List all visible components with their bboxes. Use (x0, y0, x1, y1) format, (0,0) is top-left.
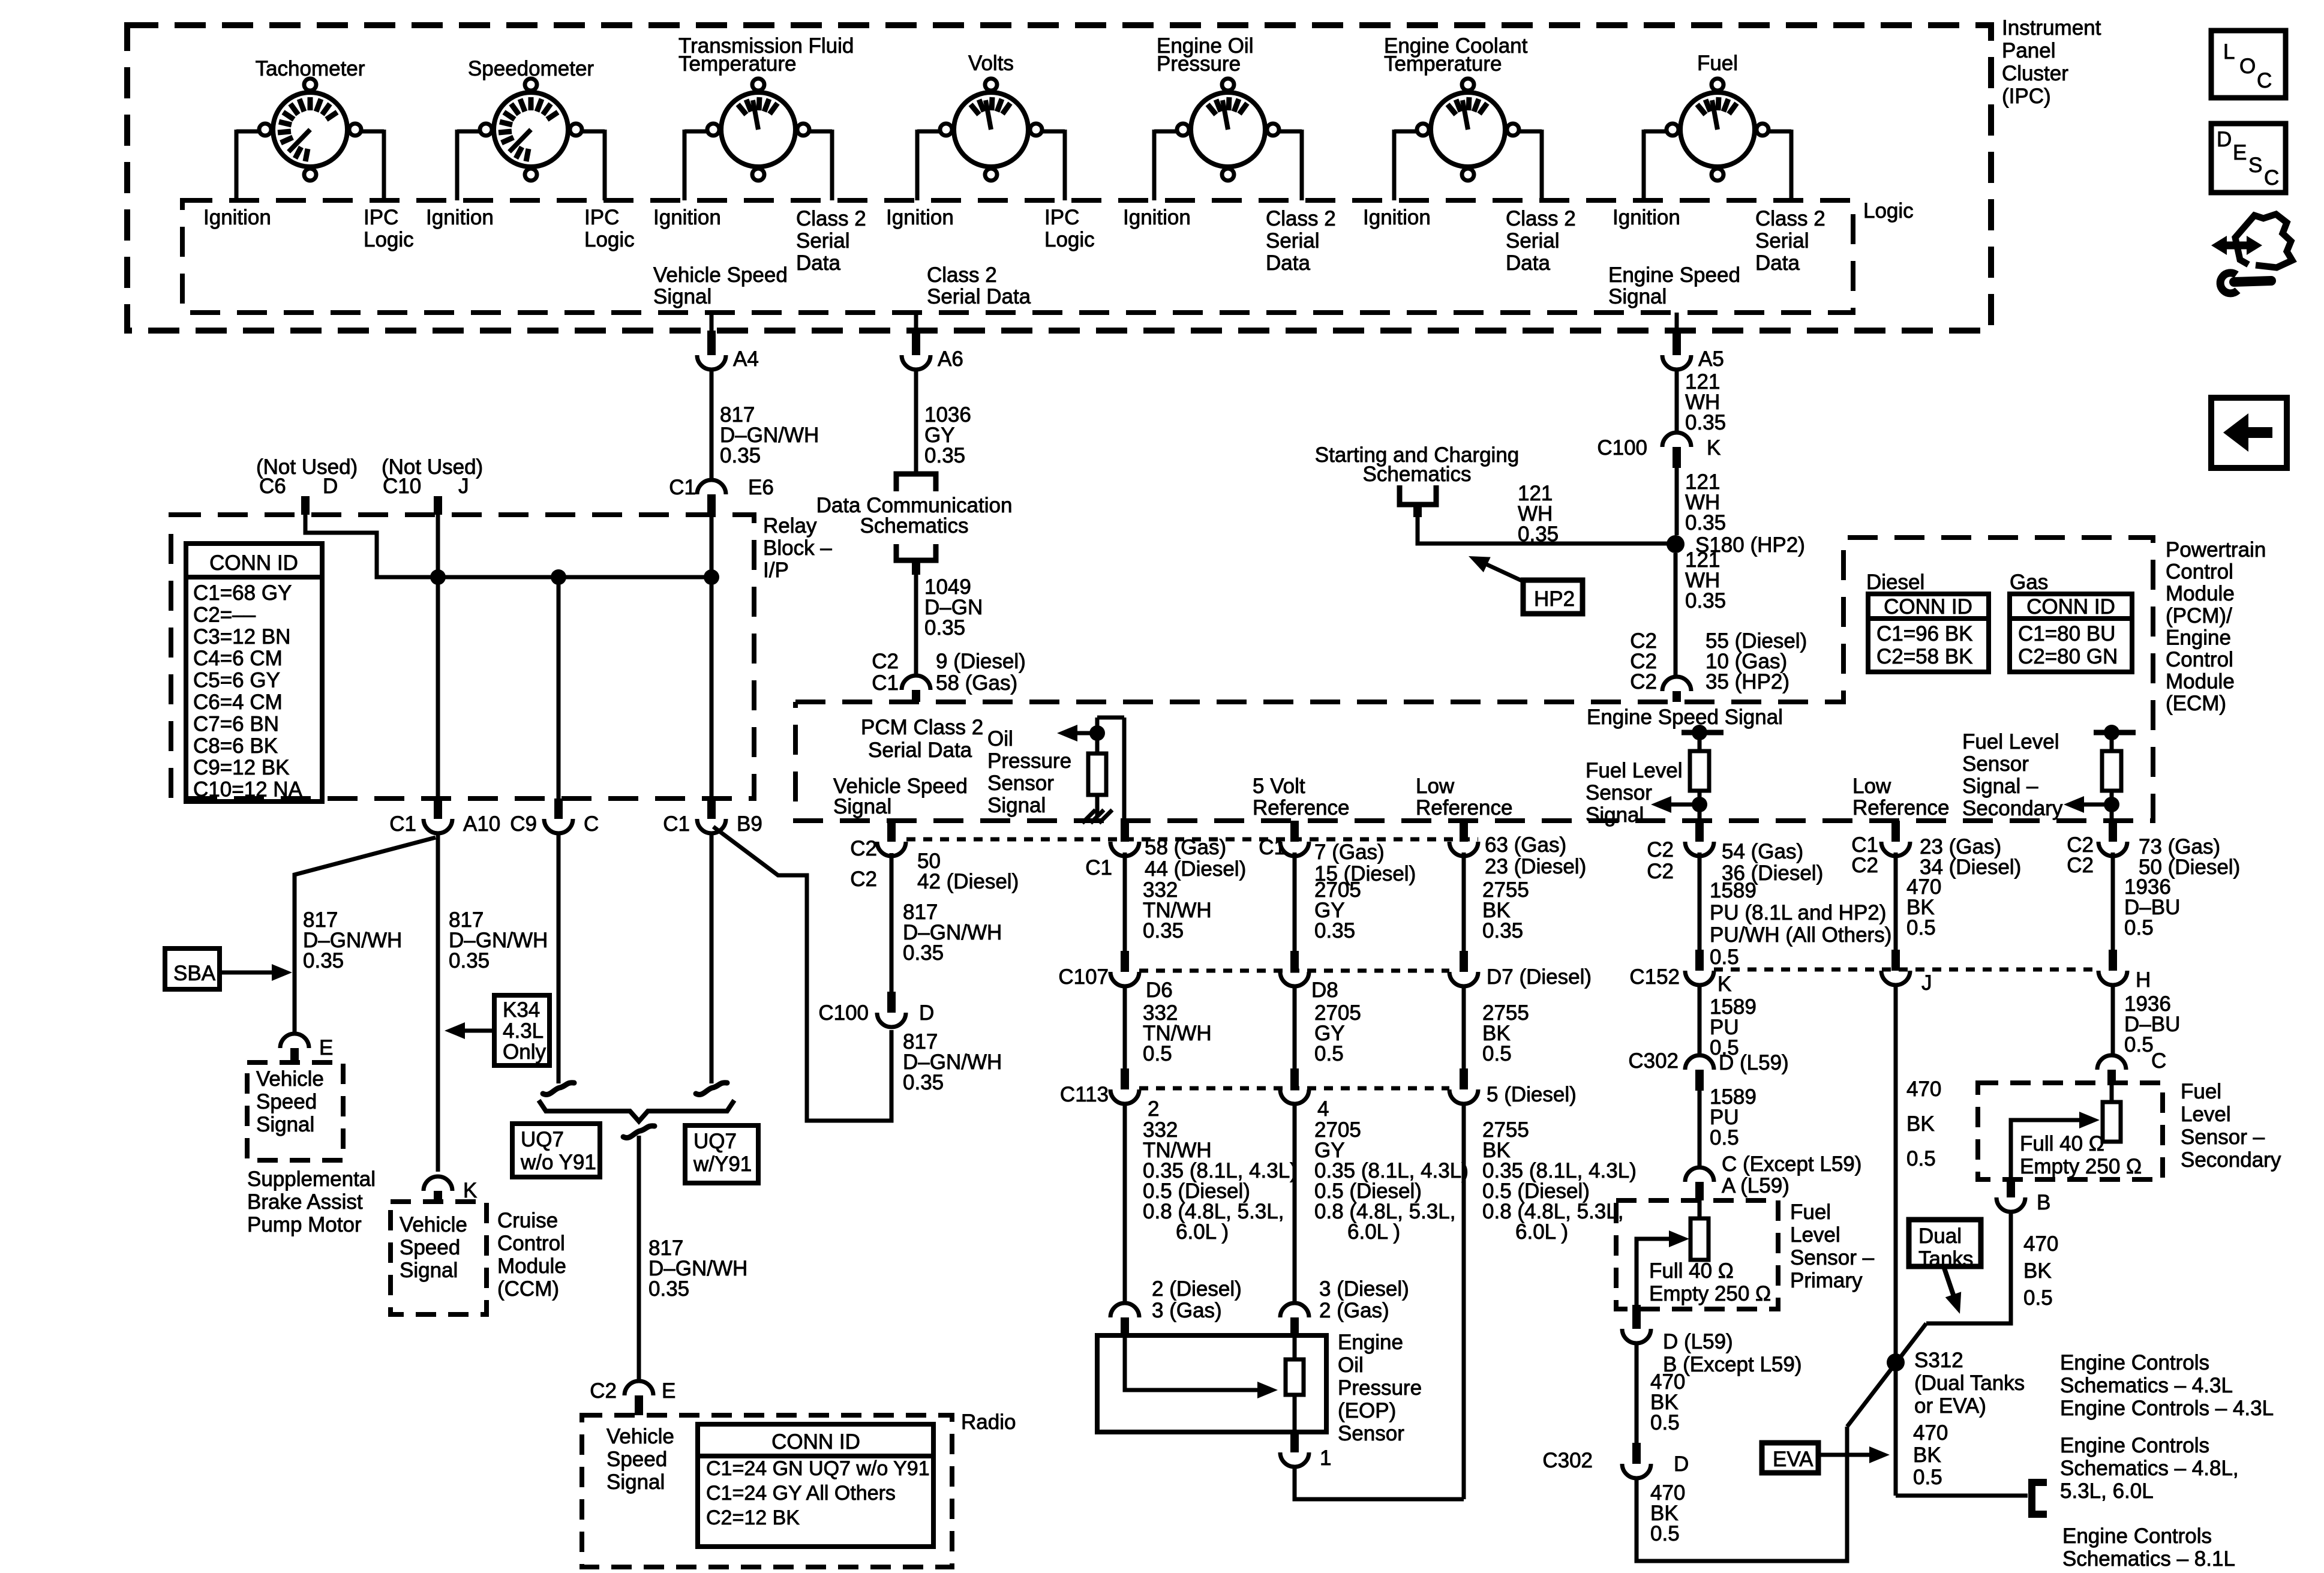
svg-text:C302: C302 (1542, 1449, 1593, 1472)
svg-text:A6: A6 (938, 347, 963, 371)
svg-text:C6=4 CM: C6=4 CM (193, 691, 283, 714)
svg-text:IPC: IPC (364, 206, 398, 229)
wire col 2440 seg1 (1462, 852, 1466, 951)
svg-text:A4: A4 (733, 347, 759, 371)
svg-text:0.5: 0.5 (1913, 1466, 1942, 1489)
svg-text:Volts: Volts (968, 52, 1014, 75)
junction dot E6 wire (704, 569, 719, 585)
junction dot fls2 bottom (2104, 797, 2119, 812)
wire C6 jog (305, 515, 711, 577)
wire col 2158 seg2 (1293, 986, 1297, 1068)
svg-text:C2=58 BK: C2=58 BK (1876, 645, 1973, 668)
table CONN ID radio (698, 1424, 933, 1547)
connector A4 (707, 331, 716, 355)
wire fls branch (1698, 733, 1702, 751)
gauge engine coolant temperature (1431, 92, 1505, 167)
svg-text:1: 1 (1320, 1446, 1331, 1470)
svg-text:(PCM)/: (PCM)/ (2166, 604, 2232, 628)
svg-text:0.35: 0.35 (903, 941, 944, 965)
svg-text:w/o Y91: w/o Y91 (520, 1151, 596, 1174)
svg-text:Secondary: Secondary (1962, 797, 2063, 820)
svg-text:Cluster: Cluster (2002, 62, 2068, 85)
svg-text:Engine Controls: Engine Controls (2060, 1434, 2209, 1457)
wire C100K to S180 (1675, 468, 1679, 535)
wire c302 down (1698, 1091, 1702, 1167)
svg-text:5.3L, 6.0L: 5.3L, 6.0L (2060, 1479, 2154, 1503)
svg-text:Empty 250 Ω: Empty 250 Ω (1649, 1282, 1771, 1305)
wire col 1875 seg1 (1123, 852, 1127, 951)
svg-text:PU (8.1L and HP2): PU (8.1L and HP2) (1710, 901, 1886, 924)
svg-text:Signal –: Signal – (1962, 775, 2038, 798)
svg-text:Brake Assist: Brake Assist (247, 1190, 363, 1214)
svg-text:Logic: Logic (1044, 228, 1095, 251)
svg-text:470: 470 (1913, 1421, 1948, 1445)
svg-text:Ignition: Ignition (426, 206, 494, 229)
svg-text:C1=24 GY All Others: C1=24 GY All Others (706, 1482, 896, 1505)
svg-text:C1=96 BK: C1=96 BK (1876, 622, 1973, 646)
svg-text:C5=6 GY: C5=6 GY (193, 669, 280, 692)
svg-text:IPC: IPC (584, 206, 619, 229)
svg-text:Data: Data (1506, 251, 1550, 275)
connector C (554, 798, 563, 819)
icon wrench-arrow (2211, 236, 2227, 255)
wire B9 drop to brace (710, 833, 714, 1083)
svg-text:Sensor: Sensor (1586, 781, 1652, 804)
svg-text:54 (Gas): 54 (Gas) (1722, 840, 1803, 863)
svg-text:0.35: 0.35 (1143, 919, 1184, 942)
connector C2 73 (2109, 821, 2117, 842)
svg-text:0.5: 0.5 (2124, 916, 2154, 939)
wire E6-B9 (710, 515, 714, 800)
gauge fuel (1680, 92, 1755, 167)
wire break B9 (696, 1083, 727, 1095)
icon LOC box (2211, 31, 2286, 98)
svg-text:Reference: Reference (1852, 796, 1949, 819)
svg-text:Full 40 Ω: Full 40 Ω (2020, 1132, 2104, 1155)
svg-text:2: 2 (1148, 1097, 1159, 1121)
wire 1036 A6 (914, 370, 918, 472)
svg-text:Secondary: Secondary (2181, 1148, 2281, 1172)
connector C2 35 (1662, 677, 1691, 691)
arrow primary (1669, 1230, 1689, 1247)
gauge volts (954, 92, 1028, 167)
wire A4 drop (710, 313, 714, 331)
wire fls2 lower (2110, 791, 2114, 821)
wire secondary arrow (2011, 1120, 2080, 1179)
box UQ7 w/o Y91 (512, 1124, 600, 1177)
wire B down (1926, 1212, 2011, 1323)
svg-text:Fuel Level: Fuel Level (1962, 730, 2059, 754)
wire A5 drop (1675, 313, 1679, 331)
svg-text:Signal: Signal (1586, 803, 1644, 827)
dotted line PCM bottom (906, 837, 1478, 842)
svg-text:Engine Speed Signal: Engine Speed Signal (1587, 706, 1783, 729)
connector C1 23 (1891, 821, 1900, 842)
svg-text:Relay: Relay (763, 514, 817, 538)
svg-text:Cruise: Cruise (497, 1209, 558, 1232)
svg-text:0.5: 0.5 (1906, 1147, 1936, 1170)
wire secondary resistor top (2110, 1083, 2114, 1102)
svg-text:Full 40 Ω: Full 40 Ω (1649, 1259, 1734, 1283)
svg-text:Engine Speed: Engine Speed (1608, 263, 1740, 287)
svg-text:BK: BK (2023, 1259, 2052, 1283)
svg-text:SBA: SBA (173, 962, 216, 985)
svg-text:35 (HP2): 35 (HP2) (1706, 670, 1789, 694)
connector K ccm (424, 1176, 452, 1191)
connector C secondary (2097, 1055, 2126, 1070)
svg-text:Schematics – 4.8L,: Schematics – 4.8L, (2060, 1457, 2239, 1480)
svg-text:Low: Low (1416, 775, 1455, 798)
svg-text:Serial: Serial (1506, 229, 1559, 253)
svg-text:PCM Class 2: PCM Class 2 (861, 716, 983, 739)
wire C10 drop (436, 515, 440, 800)
wire fls2 T-bar (2094, 730, 2136, 736)
svg-text:Data: Data (1755, 251, 1800, 275)
svg-text:Diesel: Diesel (1866, 571, 1924, 594)
svg-text:C4=6 CM: C4=6 CM (193, 647, 283, 670)
svg-text:Ignition: Ignition (1613, 206, 1680, 229)
wire eop out (1293, 1395, 1297, 1432)
svg-text:Level: Level (1790, 1223, 1840, 1247)
svg-text:D: D (323, 475, 338, 498)
svg-text:0.35: 0.35 (449, 949, 490, 972)
svg-text:0.5: 0.5 (1650, 1411, 1680, 1434)
svg-text:2 (Diesel): 2 (Diesel) (1152, 1277, 1242, 1301)
svg-text:C1: C1 (669, 476, 696, 499)
svg-text:D7 (Diesel): D7 (Diesel) (1487, 965, 1592, 989)
svg-text:C2=––: C2=–– (193, 603, 256, 626)
wire eop left internal (1125, 1335, 1261, 1390)
svg-text:H: H (2136, 968, 2151, 992)
box HP2 (1523, 580, 1583, 614)
connector C2 54 (1695, 821, 1704, 842)
svg-text:Signal: Signal (833, 795, 891, 818)
svg-text:C1: C1 (389, 812, 416, 836)
svg-text:C1: C1 (663, 812, 690, 836)
svg-text:0.35: 0.35 (1482, 919, 1523, 942)
svg-text:0.35: 0.35 (720, 444, 761, 467)
svg-text:Ignition: Ignition (203, 206, 271, 229)
svg-text:Signal: Signal (1608, 285, 1667, 308)
svg-text:4.3L: 4.3L (503, 1019, 544, 1043)
svg-text:Speed: Speed (256, 1090, 317, 1113)
wire 1049 (914, 575, 918, 676)
svg-text:0.35: 0.35 (1685, 589, 1726, 613)
svg-text:C (Except L59): C (Except L59) (1722, 1152, 1861, 1176)
svg-text:Instrument: Instrument (2002, 16, 2101, 40)
svg-text:0.5: 0.5 (2124, 1033, 2154, 1056)
svg-text:0.35: 0.35 (1685, 511, 1726, 535)
arrow K34 (459, 1029, 494, 1033)
svg-text:0.5: 0.5 (1906, 916, 1936, 939)
svg-text:D: D (919, 1001, 934, 1025)
svg-text:K34: K34 (503, 998, 540, 1022)
svg-text:D: D (1674, 1452, 1689, 1476)
resistor fuel secondary (2103, 1102, 2121, 1142)
svg-text:EVA: EVA (1773, 1448, 1813, 1471)
wire diagonal to SBA branch (295, 837, 436, 1034)
dotted line C152-H (1714, 968, 2098, 972)
connector J (1891, 950, 1900, 971)
svg-text:Speed: Speed (606, 1448, 667, 1471)
svg-text:C100: C100 (818, 1001, 869, 1025)
wire H seg2 (2111, 985, 2115, 1055)
wire C100D column (890, 853, 894, 992)
svg-text:C3=12 BN: C3=12 BN (193, 625, 290, 649)
svg-text:Low: Low (1852, 775, 1891, 798)
svg-text:0.35: 0.35 (1518, 523, 1559, 546)
connector eop 1 (1290, 1432, 1299, 1452)
svg-text:42 (Diesel): 42 (Diesel) (917, 870, 1019, 893)
box fuel level primary (1616, 1200, 1778, 1309)
svg-text:C: C (584, 812, 599, 836)
svg-text:Engine: Engine (1338, 1331, 1403, 1354)
svg-text:0.35: 0.35 (303, 949, 344, 972)
wire col 1875 seg2 (1123, 986, 1127, 1068)
svg-text:Serial: Serial (1755, 229, 1809, 253)
svg-text:C9: C9 (510, 812, 537, 836)
svg-text:B: B (2037, 1191, 2050, 1214)
gauge tachometer (273, 92, 347, 167)
svg-text:E6: E6 (748, 476, 774, 499)
connector C1 58 (1121, 821, 1129, 842)
svg-text:4: 4 (1317, 1097, 1329, 1121)
svg-text:Ignition: Ignition (1363, 206, 1431, 229)
svg-text:Schematics – 8.1L: Schematics – 8.1L (2062, 1547, 2235, 1571)
svg-text:470: 470 (1906, 1077, 1941, 1101)
svg-text:23 (Diesel): 23 (Diesel) (1485, 855, 1586, 878)
arrow HP2 (1482, 562, 1523, 581)
arrow SBA (220, 971, 273, 975)
svg-text:Class 2: Class 2 (1506, 207, 1576, 230)
connector row C107 1875 (1121, 951, 1129, 972)
wire break radio (623, 1126, 654, 1138)
svg-text:6.0L ): 6.0L ) (1176, 1220, 1229, 1244)
svg-text:C2: C2 (850, 867, 877, 891)
arrow fls secondary (2080, 803, 2112, 807)
svg-text:Sensor: Sensor (987, 772, 1054, 795)
connector C A L59 (1685, 1167, 1714, 1182)
wire radio drop (637, 1136, 641, 1381)
svg-text:0.5: 0.5 (1314, 1042, 1344, 1065)
connector E pump (280, 1034, 309, 1048)
svg-text:Sensor –: Sensor – (1790, 1246, 1875, 1269)
svg-text:Serial Data: Serial Data (868, 739, 972, 762)
wire A6 drop (914, 313, 918, 331)
stub C10/J (434, 496, 442, 515)
svg-text:HP2: HP2 (1534, 587, 1575, 611)
svg-text:C7=6 BN: C7=6 BN (193, 712, 279, 736)
svg-text:J: J (458, 475, 469, 498)
svg-text:6.0L ): 6.0L ) (1347, 1220, 1400, 1244)
svg-text:C2=12 BK: C2=12 BK (706, 1506, 800, 1529)
dotted line C113 (1139, 1086, 1449, 1091)
svg-text:Signal: Signal (606, 1470, 665, 1494)
svg-text:58 (Gas): 58 (Gas) (936, 671, 1017, 695)
svg-text:C2: C2 (1647, 860, 1674, 883)
svg-text:Reference: Reference (1416, 796, 1512, 819)
svg-text:Temperature: Temperature (678, 52, 796, 76)
arrow oil-pressure signal (1075, 731, 1097, 736)
connector H (2109, 950, 2117, 971)
svg-text:C107: C107 (1058, 965, 1109, 989)
table CONN ID relay (186, 544, 322, 801)
resistor oil-pressure (1088, 754, 1106, 795)
connector A6 (912, 331, 920, 355)
svg-text:0.35: 0.35 (1685, 411, 1726, 434)
connector C302 D L59 (1685, 1055, 1714, 1070)
svg-text:(IPC): (IPC) (2002, 85, 2051, 108)
svg-text:C9=12 BK: C9=12 BK (193, 756, 290, 779)
svg-text:C2: C2 (1630, 670, 1657, 694)
svg-text:Serial: Serial (1266, 229, 1319, 253)
svg-text:C2: C2 (2067, 854, 2094, 877)
svg-text:0.35: 0.35 (648, 1277, 689, 1301)
svg-text:A10: A10 (463, 812, 500, 836)
svg-text:Tachometer: Tachometer (256, 57, 365, 80)
svg-text:Level: Level (2181, 1103, 2231, 1126)
wire break C (543, 1083, 574, 1095)
svg-text:Fuel: Fuel (1697, 52, 1738, 75)
wire eop loop (1295, 1467, 1464, 1499)
connector A5 (1673, 331, 1681, 355)
svg-text:Only: Only (503, 1040, 546, 1064)
svg-text:Schematics – 4.3L: Schematics – 4.3L (2060, 1374, 2233, 1397)
svg-text:Sensor: Sensor (1962, 752, 2029, 776)
wire diagonal S312 (1847, 1323, 1926, 1427)
connector C152 (1695, 950, 1704, 971)
svg-text:C6: C6 (259, 475, 286, 498)
brace merge (539, 1100, 734, 1121)
svg-text:S: S (2248, 154, 2262, 177)
wire colB seg3 (1293, 1104, 1297, 1303)
wire primary resistor top (1698, 1200, 1702, 1218)
svg-text:(ECM): (ECM) (2166, 692, 2226, 715)
wire fls lower (1698, 791, 1702, 821)
svg-text:Serial: Serial (796, 229, 849, 253)
svg-text:C1: C1 (1085, 856, 1112, 879)
connector C1 E6 (697, 480, 726, 494)
svg-text:Speed: Speed (400, 1236, 460, 1259)
svg-text:C2: C2 (1851, 854, 1878, 877)
svg-text:Panel: Panel (2002, 39, 2056, 62)
connector eop right (1280, 1303, 1309, 1317)
svg-text:Module: Module (2166, 582, 2235, 605)
svg-text:(Dual Tanks: (Dual Tanks (1914, 1371, 2025, 1395)
box UQ7 w/Y91 (685, 1125, 758, 1183)
box Dual Tanks (1909, 1220, 1981, 1266)
wire fls2 branch (2110, 733, 2114, 751)
svg-text:C2=80 GN: C2=80 GN (2018, 645, 2118, 668)
svg-text:L: L (2223, 40, 2235, 64)
svg-text:Fuel: Fuel (2181, 1080, 2221, 1103)
wire resistor to ground (1095, 795, 1100, 816)
connector C2 E radio (624, 1381, 653, 1395)
box EVA (1762, 1443, 1818, 1473)
arrow secondary (2079, 1112, 2100, 1128)
IPC outer dashed box (127, 25, 1991, 331)
table CONN ID diesel (1868, 594, 1989, 672)
gauge transmission fluid temperature (721, 92, 795, 167)
junction dot fls top (1692, 725, 1707, 740)
connector C2/C1 PCM class2 (902, 676, 930, 690)
svg-text:C1=68 GY: C1=68 GY (193, 581, 292, 605)
svg-text:C: C (2264, 166, 2279, 190)
table CONN ID gas (2010, 594, 2132, 672)
resistor fuel level signal (1690, 751, 1709, 791)
svg-text:0.5: 0.5 (1650, 1522, 1680, 1545)
svg-text:B9: B9 (737, 812, 762, 836)
svg-text:J: J (1921, 971, 1932, 995)
svg-text:A (L59): A (L59) (1722, 1174, 1789, 1197)
svg-text:UQ7: UQ7 (521, 1128, 564, 1151)
svg-text:C8=6 BK: C8=6 BK (193, 734, 278, 758)
wire primary down (1635, 1343, 1639, 1443)
svg-text:Engine: Engine (2166, 626, 2231, 649)
wire C drop to brace (557, 833, 561, 1083)
svg-text:Pressure: Pressure (1157, 52, 1241, 76)
svg-text:D: D (2217, 128, 2232, 151)
svg-text:Block –: Block – (763, 536, 832, 560)
icon back-arrow (2244, 427, 2272, 438)
svg-text:C1: C1 (1259, 836, 1286, 859)
connector D B primary (1632, 1305, 1641, 1329)
wire colC seg3 (1462, 1104, 1466, 1499)
svg-text:Logic: Logic (584, 228, 635, 251)
svg-text:or EVA): or EVA) (1914, 1394, 1986, 1418)
svg-text:Empty 250 Ω: Empty 250 Ω (2020, 1155, 2142, 1178)
arrow eop internal (1257, 1382, 1278, 1398)
svg-text:3 (Gas): 3 (Gas) (1152, 1299, 1222, 1322)
svg-text:Vehicle Speed: Vehicle Speed (653, 263, 788, 287)
offpage bracket starting (1400, 485, 1436, 505)
svg-text:Ignition: Ignition (886, 206, 954, 229)
svg-text:E: E (662, 1379, 675, 1403)
svg-text:Control: Control (497, 1232, 565, 1255)
connector eop left (1110, 1303, 1139, 1317)
connector B secondary (2007, 1179, 2015, 1197)
connector C1 7 (1290, 821, 1299, 842)
connector C100 D (887, 992, 896, 1013)
svg-text:Engine Controls: Engine Controls (2062, 1524, 2212, 1548)
connector row C113 2158 (1290, 1068, 1299, 1089)
svg-text:C100: C100 (1597, 436, 1647, 460)
svg-text:470: 470 (2023, 1232, 2058, 1256)
svg-text:Radio: Radio (961, 1410, 1016, 1434)
svg-text:BK: BK (1913, 1443, 1941, 1467)
svg-text:Module: Module (2166, 670, 2235, 694)
wire b column top (1122, 718, 1127, 821)
svg-text:C: C (2151, 1049, 2166, 1073)
wire B9 diagonal (713, 827, 891, 1121)
svg-text:2 (Gas): 2 (Gas) (1319, 1299, 1389, 1322)
junction dot C10 (430, 569, 446, 585)
resistor fls secondary (2102, 751, 2121, 791)
svg-text:Supplemental: Supplemental (247, 1167, 376, 1191)
svg-text:Control: Control (2166, 648, 2233, 671)
svg-text:Serial Data: Serial Data (927, 285, 1031, 308)
box fuel level secondary (1978, 1083, 2163, 1179)
svg-text:5 Volt: 5 Volt (1253, 775, 1305, 798)
svg-text:0.5: 0.5 (1710, 1126, 1739, 1149)
svg-text:CONN ID: CONN ID (209, 551, 298, 575)
svg-text:Pump Motor: Pump Motor (247, 1213, 362, 1236)
arrow fuel level signal (1668, 803, 1700, 807)
box Vehicle Speed Signal (ccm) (391, 1202, 487, 1314)
wire 817 A4-E6 (710, 370, 714, 480)
svg-text:Logic: Logic (1863, 199, 1914, 223)
svg-text:C152: C152 (1629, 965, 1680, 989)
